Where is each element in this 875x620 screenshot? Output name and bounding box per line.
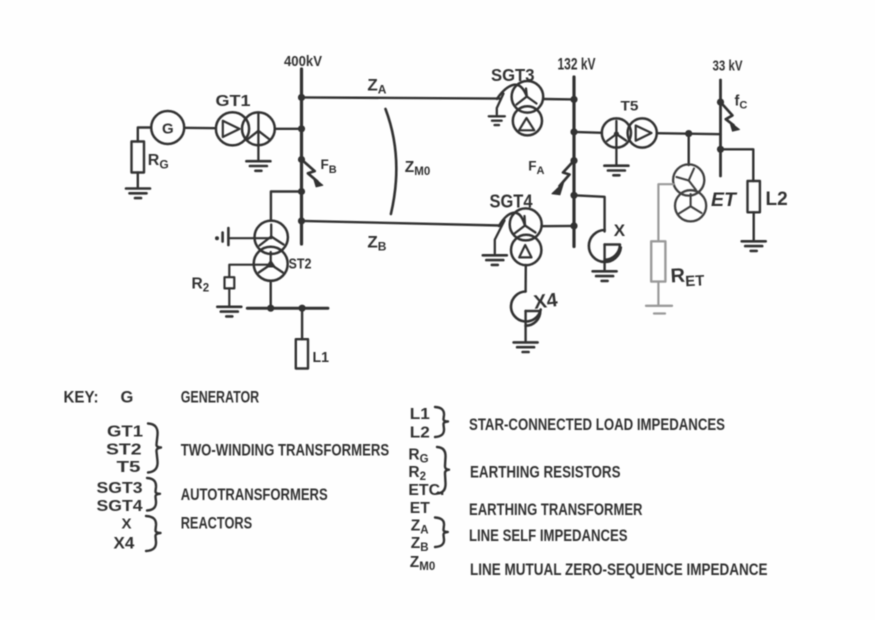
wire RET to ground <box>657 282 659 305</box>
wire L2 to ground <box>753 212 755 240</box>
svg-text:RG: RG <box>408 447 428 466</box>
svg-text:ET: ET <box>410 500 430 517</box>
svg-text:ETC.: ETC. <box>408 482 444 499</box>
autotransformer SGT3 <box>491 65 543 135</box>
key two-winding transformers <box>181 442 390 460</box>
busbar 132kV <box>572 77 575 247</box>
wire RG to ground <box>137 173 139 189</box>
svg-text:X: X <box>122 515 132 532</box>
key autotransformers <box>181 486 328 504</box>
svg-text:ST2: ST2 <box>289 256 312 273</box>
wire SGT3 to 132kV bus <box>543 98 574 101</box>
wire 33kV bus to L2 <box>721 149 754 181</box>
wire T5 neutral to ground <box>615 134 617 165</box>
brace reactors <box>146 516 161 551</box>
reactor X <box>589 221 626 270</box>
svg-text:SGT3: SGT3 <box>491 65 535 85</box>
LV bar under ST2 <box>247 307 328 310</box>
svg-text:FB: FB <box>321 157 337 176</box>
earthing transformer ET <box>673 164 738 221</box>
key earthing transformer <box>469 501 643 519</box>
key X X4 <box>114 515 135 552</box>
svg-text:ZA: ZA <box>411 518 429 537</box>
wire SGT4 to X4 <box>524 265 527 292</box>
transformer ST2 <box>254 221 312 281</box>
svg-text:ZM0: ZM0 <box>405 159 430 178</box>
wire ST2 LV neutral to R2 <box>229 265 270 277</box>
svg-text:L2: L2 <box>410 425 430 442</box>
node L1/LV bar <box>299 305 306 312</box>
svg-text:ZA: ZA <box>367 76 386 97</box>
line ZB <box>302 221 501 254</box>
ground under R2 <box>217 307 241 317</box>
resistor RET <box>651 241 705 291</box>
svg-text:400kV: 400kV <box>284 54 322 70</box>
node FA/132kV <box>570 157 577 164</box>
svg-text:X4: X4 <box>114 534 135 553</box>
svg-text:R2: R2 <box>408 464 426 483</box>
fault FC lightning arrow <box>721 94 748 132</box>
node GT1/400kV <box>298 125 305 132</box>
key star-connected load impedances <box>469 416 725 434</box>
reactor X4 <box>511 289 559 341</box>
svg-text:GT1: GT1 <box>107 424 143 441</box>
wire ET to RET <box>658 184 673 241</box>
svg-text:G: G <box>121 388 134 406</box>
svg-text:EARTHING TRANSFORMER: EARTHING TRANSFORMER <box>469 501 643 519</box>
wire G to GT1 <box>184 127 216 130</box>
node SGT4/132kV <box>570 222 577 229</box>
ground under L2 <box>742 241 766 251</box>
svg-text:ZM0: ZM0 <box>410 554 435 573</box>
busbar 400kV <box>300 69 303 244</box>
svg-text:STAR-CONNECTED LOAD IMPEDANCES: STAR-CONNECTED LOAD IMPEDANCES <box>469 416 725 434</box>
svg-text:X4: X4 <box>532 289 559 314</box>
svg-text:TWO-WINDING TRANSFORMERS: TWO-WINDING TRANSFORMERS <box>181 442 390 460</box>
svg-text:L1: L1 <box>410 406 430 423</box>
node ET branch <box>685 130 692 137</box>
wire SGT3 neutral to ground <box>497 94 504 115</box>
node ZA/400kV <box>298 94 305 101</box>
key ZA ZB <box>411 518 429 555</box>
key L1 L2 <box>410 406 430 442</box>
node ST2/LV bar <box>267 305 274 312</box>
key GT1 ST2 T5 <box>106 424 143 477</box>
key earthing resistors <box>470 464 621 482</box>
wire R2 to ground <box>228 288 230 306</box>
key heading <box>64 388 260 406</box>
wire down to ET <box>688 134 690 165</box>
svg-text:132 kV: 132 kV <box>558 55 596 73</box>
brace autotransformers <box>147 478 160 511</box>
svg-text:L1: L1 <box>313 350 330 366</box>
svg-text:T5: T5 <box>621 98 640 113</box>
wire G to RG <box>138 128 151 142</box>
svg-text:AUTOTRANSFORMERS: AUTOTRANSFORMERS <box>181 486 328 504</box>
wire 132kV bus to T5 <box>574 131 602 134</box>
svg-text:T5: T5 <box>117 459 141 476</box>
key line mutual zero-sequence impedance <box>470 561 768 579</box>
autotransformer SGT4 <box>490 191 542 265</box>
wire SGT4 neutral to ground <box>495 221 505 254</box>
key RG R2 ETC <box>408 447 444 500</box>
node SGT3/132kV <box>570 96 577 103</box>
ST2 HV neutral open link <box>215 228 271 245</box>
node ST2 branch/400kV <box>298 188 305 195</box>
node L2 branch/33kV <box>717 146 724 153</box>
brace loads <box>435 407 448 437</box>
busbar 33kV <box>719 80 722 176</box>
wire 132kV bus to X <box>574 195 605 231</box>
svg-text:LINE SELF IMPEDANCES: LINE SELF IMPEDANCES <box>469 527 628 545</box>
svg-text:RG: RG <box>148 152 169 171</box>
ground under RET <box>646 306 672 314</box>
svg-text:SGT4: SGT4 <box>97 498 143 515</box>
svg-text:fC: fC <box>735 94 748 112</box>
fault FA lightning arrow <box>528 158 574 195</box>
label 132kV <box>558 55 596 73</box>
svg-text:GT1: GT1 <box>216 93 251 110</box>
resistor RG <box>132 142 169 173</box>
svg-text:LINE MUTUAL ZERO-SEQUENCE IMPE: LINE MUTUAL ZERO-SEQUENCE IMPEDANCE <box>470 561 768 579</box>
wire GT1 neutral to ground <box>257 131 259 161</box>
svg-text:KEY:: KEY: <box>64 388 99 406</box>
svg-text:G: G <box>162 121 174 138</box>
wire GT1 to 400kV bus <box>275 128 302 130</box>
key SGT3 SGT4 <box>97 480 143 515</box>
ground under X4 <box>514 342 538 352</box>
wire T5 to 33kV bus <box>657 133 721 134</box>
ground under X <box>593 271 617 281</box>
svg-text:ZB: ZB <box>367 233 386 254</box>
ground at SGT4 <box>483 255 507 265</box>
load impedance L2 <box>748 181 788 212</box>
transformer T5 <box>602 98 657 147</box>
svg-text:ZB: ZB <box>411 535 429 554</box>
svg-text:33 kV: 33 kV <box>713 58 743 75</box>
mutual impedance ZM0 arc <box>386 109 431 214</box>
node ZB/400kV <box>298 217 305 224</box>
node FC/33kV <box>717 99 724 106</box>
svg-text:REACTORS: REACTORS <box>181 514 253 532</box>
svg-text:R2: R2 <box>192 275 210 294</box>
key line self impedances <box>469 527 628 545</box>
ground at SGT3 <box>489 116 505 125</box>
svg-text:EARTHING RESISTORS: EARTHING RESISTORS <box>470 464 621 482</box>
ground under RG <box>126 189 150 199</box>
wire LV bar to L1 <box>301 308 303 339</box>
ground under T5 <box>604 166 628 176</box>
svg-text:L2: L2 <box>766 189 788 210</box>
load impedance L1 <box>296 339 329 368</box>
node FB/400kV <box>298 156 305 163</box>
fault FB lightning arrow <box>302 157 337 187</box>
line ZA <box>302 76 501 99</box>
generator G <box>151 111 184 144</box>
resistor R2 <box>192 275 235 294</box>
svg-text:ET: ET <box>711 189 738 211</box>
svg-text:SGT4: SGT4 <box>490 191 533 211</box>
svg-text:GENERATOR: GENERATOR <box>181 388 260 406</box>
brace earthing resistors <box>437 447 449 494</box>
label 33kV <box>713 58 743 75</box>
key reactors <box>181 514 253 532</box>
svg-text:ST2: ST2 <box>106 442 142 459</box>
ground under GT1 <box>246 161 270 171</box>
svg-text:X: X <box>614 221 626 240</box>
svg-text:FA: FA <box>528 158 544 177</box>
key ET <box>410 500 430 517</box>
brace two-winding <box>148 424 161 473</box>
brace line self impedances <box>435 518 448 548</box>
wire SGT4 to 132kV bus <box>542 225 575 228</box>
wire ST2 to LV bar <box>270 281 272 308</box>
key ZM0 <box>410 554 435 573</box>
node T5/132kV <box>570 128 577 135</box>
svg-text:SGT3: SGT3 <box>97 480 143 497</box>
svg-text:RET: RET <box>670 264 705 291</box>
label 400kV <box>284 54 322 70</box>
node X branch/132kV <box>570 192 577 199</box>
wire 400kV bus to ST2 <box>271 192 302 221</box>
transformer GT1 <box>216 93 275 146</box>
